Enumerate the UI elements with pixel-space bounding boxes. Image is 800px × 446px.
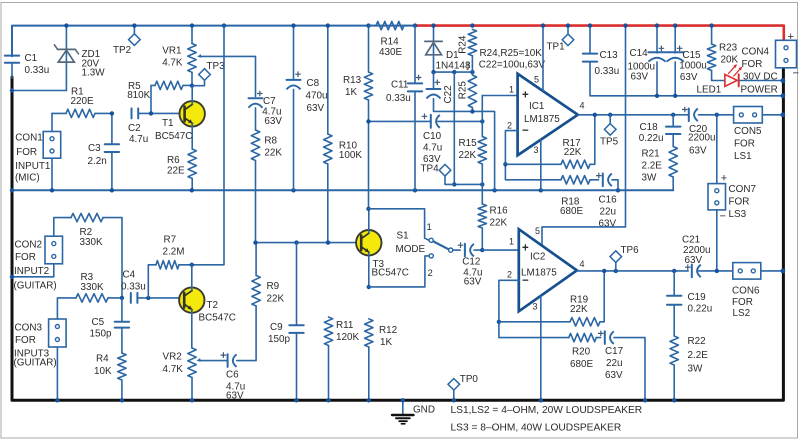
svg-text:CON2: CON2 bbox=[15, 240, 42, 251]
label R13 bbox=[343, 75, 362, 98]
test point TP3 bbox=[193, 69, 210, 86]
connector CON3 bbox=[49, 319, 67, 401]
junction gnd R22 bbox=[672, 398, 676, 402]
label R6 bbox=[167, 155, 185, 176]
junction R25 bottom bbox=[470, 109, 474, 113]
transistor T2 bbox=[179, 265, 204, 348]
svg-text:470u: 470u bbox=[306, 91, 328, 102]
VR2 wiper arrow bbox=[197, 358, 228, 362]
svg-text:2.2E: 2.2E bbox=[688, 350, 709, 361]
svg-text:22K: 22K bbox=[264, 147, 282, 158]
svg-text:2: 2 bbox=[507, 121, 512, 131]
label T1 bbox=[155, 118, 192, 142]
svg-text:−: − bbox=[793, 68, 799, 80]
resistor R14 bbox=[369, 21, 416, 29]
junction base line R10/R11 bbox=[326, 240, 330, 244]
svg-text:TP1: TP1 bbox=[547, 42, 566, 53]
junction frame at cap bus bbox=[781, 93, 786, 98]
resistor R12 bbox=[365, 319, 373, 401]
label C4 bbox=[121, 270, 146, 293]
label R1 bbox=[71, 86, 94, 107]
zener diode ZD1 bbox=[12, 26, 79, 91]
svg-text:C4: C4 bbox=[123, 270, 136, 281]
svg-text:C2: C2 bbox=[128, 123, 141, 134]
wire: IC2 pin2 bbox=[499, 280, 569, 337]
test point TP4 bbox=[439, 164, 454, 184]
wire: IC1 output bbox=[578, 114, 783, 116]
CON4 plus bbox=[788, 31, 794, 43]
svg-text:CON7: CON7 bbox=[729, 184, 756, 195]
label VR1 bbox=[162, 46, 183, 69]
ground frame (black bus) bbox=[12, 69, 783, 400]
svg-text:10K: 10K bbox=[94, 366, 112, 377]
test point TP0 bbox=[448, 379, 460, 401]
wire: pin1 column bbox=[481, 96, 483, 122]
junction IC2 fb node bbox=[497, 320, 501, 324]
svg-text:R25: R25 bbox=[458, 81, 469, 100]
label R24,R25 note bbox=[467, 48, 546, 71]
junction C15 gnd bbox=[673, 94, 677, 98]
label C9 bbox=[268, 322, 290, 345]
label R23 bbox=[719, 43, 738, 66]
wire: IC2 pin3 bbox=[540, 296, 542, 401]
capacitor C10 bbox=[369, 115, 483, 128]
potentiometer VR2 bbox=[188, 348, 196, 401]
resistor R20 bbox=[569, 333, 601, 341]
label C15 bbox=[679, 50, 706, 83]
junction C4/R7/T2 bbox=[146, 296, 150, 300]
capacitor C8 bbox=[287, 26, 301, 191]
svg-text:C7: C7 bbox=[263, 96, 276, 107]
connector CON2 bbox=[12, 236, 63, 277]
resistor R23 bbox=[707, 26, 725, 81]
svg-text:BC547C: BC547C bbox=[372, 268, 409, 279]
capacitor C11 bbox=[408, 26, 422, 191]
svg-text:0.33u: 0.33u bbox=[25, 65, 50, 76]
svg-text:1.3W: 1.3W bbox=[82, 67, 106, 78]
pin number 4 (IC1) bbox=[580, 101, 585, 111]
junction on frame (ZD1 return) bbox=[10, 88, 14, 92]
svg-text:1K: 1K bbox=[380, 337, 392, 348]
resistor R3 bbox=[57, 294, 122, 319]
op-amp IC1 bbox=[518, 74, 578, 156]
resistor R25 bbox=[468, 72, 476, 111]
junction T3 emitter bbox=[367, 285, 371, 289]
svg-text:22E: 22E bbox=[167, 165, 185, 176]
CON7 minus bbox=[720, 211, 726, 223]
svg-text:FOR: FOR bbox=[16, 147, 37, 158]
resistor R16 bbox=[478, 204, 486, 250]
junction R15 bottom bbox=[480, 182, 484, 186]
wire: V+ blue bus bbox=[12, 26, 415, 57]
junction T3-col/C10 bbox=[366, 119, 370, 123]
svg-text:C9: C9 bbox=[270, 322, 283, 333]
capacitor C18 bbox=[666, 115, 680, 147]
junction R24/R25 bbox=[470, 70, 474, 74]
svg-text:63V: 63V bbox=[680, 72, 698, 83]
junction V+ bus at T2-line bbox=[222, 23, 226, 27]
junction red bus at IC2 feed bbox=[623, 23, 627, 27]
capacitor C21 bbox=[692, 265, 701, 278]
svg-text:330K: 330K bbox=[81, 282, 104, 293]
C17 plus bbox=[598, 331, 604, 337]
svg-text:330K: 330K bbox=[80, 237, 103, 248]
label TP0 bbox=[460, 374, 479, 385]
label R16 bbox=[490, 206, 509, 229]
pin number 3 (IC2) bbox=[533, 302, 538, 312]
transistor T1 bbox=[180, 85, 205, 149]
svg-text:2.2M: 2.2M bbox=[163, 247, 185, 258]
label IC2 bbox=[521, 252, 557, 279]
svg-text:TP5: TP5 bbox=[600, 137, 619, 148]
resistor R4 bbox=[118, 353, 126, 401]
wire: S1 throw2 bbox=[369, 256, 429, 287]
svg-text:+: + bbox=[522, 243, 529, 255]
LED LED1 bbox=[725, 64, 742, 86]
junction gnd R12 bbox=[367, 398, 371, 402]
svg-text:R24: R24 bbox=[458, 35, 469, 54]
C15 plus bbox=[677, 46, 683, 52]
svg-text:0.33u: 0.33u bbox=[595, 66, 620, 77]
junction gnd C9 bbox=[294, 398, 298, 402]
svg-text:63V: 63V bbox=[685, 255, 703, 266]
IC2 plus sign bbox=[522, 243, 529, 255]
label S1 pos2 bbox=[428, 268, 433, 279]
svg-text:810K: 810K bbox=[127, 90, 150, 101]
resistor R22 bbox=[670, 336, 678, 401]
wire: wiper to C7 bbox=[255, 56, 257, 96]
connector CON7 bbox=[708, 184, 726, 210]
svg-text:2.2n: 2.2n bbox=[88, 156, 107, 167]
label C17 bbox=[605, 346, 623, 381]
C10 plus bbox=[422, 114, 428, 120]
wire: bias riser bbox=[453, 72, 455, 184]
junction C2/R5/T1 base bbox=[149, 111, 153, 115]
label R4 bbox=[94, 354, 112, 378]
junction V+ bus at C8 bbox=[291, 23, 295, 27]
junction out1/R17 bbox=[593, 113, 597, 117]
svg-text:22K: 22K bbox=[490, 218, 508, 229]
resistor R17 bbox=[561, 115, 595, 169]
capacitor C7 bbox=[249, 98, 263, 130]
svg-text:0.33u: 0.33u bbox=[121, 282, 146, 293]
wire: pole to C12 bbox=[453, 249, 460, 251]
junction gnd CON1 bbox=[50, 188, 54, 192]
svg-text:63V: 63V bbox=[307, 103, 325, 114]
svg-text:CON1: CON1 bbox=[15, 132, 43, 143]
junction C12/R16/pin1 bbox=[480, 248, 484, 252]
svg-text:2: 2 bbox=[507, 270, 512, 280]
label TP1 bbox=[547, 42, 566, 53]
junction gnd C16 bbox=[616, 188, 620, 192]
capacitor C16 bbox=[603, 174, 618, 191]
junction T3 collector bbox=[366, 207, 370, 211]
label R25 bbox=[458, 81, 469, 100]
label CON1 bbox=[15, 132, 51, 183]
label C19 bbox=[688, 292, 713, 315]
svg-text:FOR: FOR bbox=[15, 335, 36, 346]
label TP2 bbox=[113, 45, 131, 56]
label CON2 bbox=[14, 240, 57, 292]
junction D1/C22 bbox=[431, 70, 435, 74]
junction red bus at C13 bbox=[588, 23, 592, 27]
svg-text:R8: R8 bbox=[264, 136, 277, 147]
svg-text:+: + bbox=[788, 31, 794, 43]
junction out2/C19 bbox=[672, 269, 676, 273]
switch S1 blade bbox=[433, 241, 448, 249]
label C22 bbox=[443, 85, 454, 103]
svg-text:63V: 63V bbox=[226, 391, 244, 402]
label R19 bbox=[570, 294, 589, 315]
capacitor C15 bbox=[667, 26, 684, 96]
svg-text:4: 4 bbox=[580, 101, 585, 111]
svg-text:150p: 150p bbox=[268, 334, 290, 345]
label C5 bbox=[90, 317, 112, 340]
junction blue/red bus bbox=[413, 23, 417, 27]
svg-text:FOR: FOR bbox=[742, 59, 763, 70]
junction gnd VR2 bbox=[190, 398, 194, 402]
note LS3 bbox=[451, 423, 622, 434]
svg-text:R21: R21 bbox=[642, 149, 661, 160]
svg-text:100K: 100K bbox=[339, 150, 362, 161]
svg-text:TP0: TP0 bbox=[460, 374, 479, 385]
junction out2/CON7 bbox=[715, 269, 719, 273]
label POWER bbox=[741, 85, 778, 96]
svg-text:220E: 220E bbox=[71, 96, 94, 107]
C11 plus bbox=[416, 75, 422, 81]
svg-text:C22: C22 bbox=[443, 85, 454, 103]
svg-text:1: 1 bbox=[509, 85, 514, 95]
junction gnd R6 bbox=[190, 188, 194, 192]
svg-text:4.7u: 4.7u bbox=[423, 143, 442, 154]
svg-text:63V: 63V bbox=[264, 116, 282, 127]
svg-text:GND: GND bbox=[413, 405, 435, 416]
svg-text:C6: C6 bbox=[226, 370, 239, 381]
label C10 bbox=[423, 131, 442, 165]
svg-text:C22=100u,63V: C22=100u,63V bbox=[479, 60, 546, 71]
svg-text:R24,R25=10K: R24,R25=10K bbox=[480, 48, 543, 59]
connector CON1 bbox=[43, 113, 61, 190]
label CON4 bbox=[742, 47, 778, 83]
label TP3 bbox=[207, 61, 226, 72]
svg-text:IC1: IC1 bbox=[529, 101, 545, 112]
C22 plus bbox=[435, 80, 441, 86]
svg-text:CON6: CON6 bbox=[732, 285, 760, 296]
label R7 bbox=[163, 235, 185, 258]
svg-text:63V: 63V bbox=[599, 219, 617, 230]
svg-text:63V: 63V bbox=[605, 370, 623, 381]
label R20 bbox=[570, 347, 593, 371]
label D1 bbox=[436, 50, 471, 72]
svg-text:4.7K: 4.7K bbox=[162, 58, 183, 69]
junction gnd R4 bbox=[120, 398, 124, 402]
junction gnd R25-return bbox=[492, 188, 496, 192]
svg-text:LS1,LS2 = 4–OHM, 20W LOUDSPEAK: LS1,LS2 = 4–OHM, 20W LOUDSPEAKER bbox=[451, 405, 643, 416]
junction red bus at R24 bbox=[470, 23, 474, 27]
junction gnd CON3 bbox=[55, 398, 59, 402]
wire: ground bus bbox=[12, 189, 673, 191]
resistor R21 bbox=[669, 147, 677, 191]
junction frame at CON5 bbox=[781, 112, 786, 117]
svg-text:22K: 22K bbox=[267, 294, 285, 305]
label C12 bbox=[462, 257, 482, 288]
junction gnd frame bbox=[10, 188, 14, 192]
junction R1/C2/C3 bbox=[110, 111, 114, 115]
label IC1 bbox=[524, 101, 560, 125]
svg-text:3: 3 bbox=[533, 302, 538, 312]
junction red bus at R23 bbox=[709, 23, 713, 27]
svg-text:4.7u: 4.7u bbox=[129, 134, 148, 145]
svg-text:R23: R23 bbox=[719, 43, 738, 54]
test point TP2 bbox=[129, 26, 141, 46]
svg-text:FOR: FOR bbox=[15, 252, 36, 263]
label R18 bbox=[560, 197, 583, 217]
label R5 bbox=[127, 81, 150, 101]
junction out2/R19 bbox=[602, 269, 606, 273]
junction C14 gnd bbox=[655, 94, 659, 98]
svg-text:0.33u: 0.33u bbox=[386, 93, 411, 104]
junction V+ bus at R13 bbox=[366, 23, 370, 27]
svg-text:C19: C19 bbox=[688, 292, 707, 303]
junction gnd IC2 pin3 bbox=[539, 398, 543, 402]
diode D1 bbox=[425, 26, 442, 73]
IC1 minus sign bbox=[522, 125, 529, 137]
junction IC1 fb node bbox=[503, 162, 507, 166]
resistor R6 bbox=[188, 149, 196, 190]
svg-text:+: + bbox=[522, 90, 529, 102]
svg-text:BC547C: BC547C bbox=[199, 313, 236, 324]
svg-text:R11: R11 bbox=[336, 320, 354, 331]
pin number 1 (IC2) bbox=[509, 237, 514, 247]
resistor R5 bbox=[151, 81, 192, 113]
junction C10/R15/pin1 bbox=[480, 119, 484, 123]
connector CON5 bbox=[734, 107, 763, 124]
svg-text:30V DC: 30V DC bbox=[743, 72, 778, 83]
svg-text:2.2E: 2.2E bbox=[642, 161, 663, 172]
pin number 3 (IC1) bbox=[534, 145, 539, 155]
resistor R8 bbox=[251, 130, 259, 243]
svg-text:R4: R4 bbox=[96, 354, 109, 365]
wire: V+ red bus bbox=[415, 26, 784, 41]
capacitor C9 bbox=[289, 243, 303, 401]
svg-text:C5: C5 bbox=[92, 317, 105, 328]
label R2 bbox=[80, 227, 103, 248]
junction TP4 stem bbox=[452, 182, 456, 186]
svg-text:22u: 22u bbox=[600, 207, 616, 218]
label R17 bbox=[563, 138, 582, 158]
capacitor C22 bbox=[427, 72, 495, 190]
junction V+ bus at R10 bbox=[326, 23, 330, 27]
connector CON4 bbox=[776, 40, 797, 68]
C8 plus bbox=[295, 71, 301, 77]
svg-text:680E: 680E bbox=[560, 206, 583, 217]
junction gnd C17 bbox=[643, 398, 647, 402]
test point TP1 bbox=[562, 26, 574, 46]
svg-text:C17: C17 bbox=[605, 346, 623, 357]
svg-text:150p: 150p bbox=[90, 329, 112, 340]
svg-text:INPUT1: INPUT1 bbox=[15, 161, 51, 172]
label TP4 bbox=[421, 164, 440, 175]
svg-text:VR2: VR2 bbox=[163, 352, 182, 363]
wire: IC1 pin2 bbox=[505, 131, 561, 180]
label C21 bbox=[682, 235, 710, 267]
svg-text:TP6: TP6 bbox=[621, 245, 640, 256]
connector CON6 bbox=[733, 263, 761, 280]
label C1 bbox=[25, 53, 50, 76]
svg-text:63V: 63V bbox=[631, 71, 649, 82]
svg-text:C16: C16 bbox=[599, 195, 618, 206]
label ZD1 bbox=[82, 49, 106, 78]
svg-text:C13: C13 bbox=[600, 50, 619, 61]
label R12 bbox=[379, 325, 397, 348]
svg-text:LS3 = 8–OHM, 40W LOUDSPEAKER: LS3 = 8–OHM, 40W LOUDSPEAKER bbox=[451, 423, 622, 434]
wire: CON7 to out2 bbox=[716, 210, 718, 271]
junction V+ bus at VR1 bbox=[190, 23, 194, 27]
wire: T3 base line bbox=[256, 242, 361, 244]
wire: IC1 pin3 bbox=[540, 140, 542, 191]
capacitor C1 bbox=[5, 56, 19, 78]
capacitor C19 bbox=[667, 271, 681, 336]
svg-text:CON3: CON3 bbox=[15, 323, 43, 334]
label T2 bbox=[199, 300, 236, 324]
label S1 bbox=[396, 231, 426, 256]
svg-text:CON4: CON4 bbox=[742, 47, 770, 58]
label R10 bbox=[339, 141, 362, 162]
svg-text:C1: C1 bbox=[25, 53, 38, 64]
svg-text:R15: R15 bbox=[459, 138, 478, 149]
resistor R1 bbox=[52, 109, 112, 117]
pin number 4 (IC2) bbox=[580, 259, 585, 269]
transistor T3 bbox=[356, 209, 381, 287]
svg-text:20K: 20K bbox=[721, 55, 739, 66]
junction out1/CON7 bbox=[715, 113, 719, 117]
svg-text:63V: 63V bbox=[464, 277, 482, 288]
junction red bus at C14 bbox=[655, 23, 659, 27]
capacitor C2 bbox=[132, 108, 185, 118]
svg-text:2200u: 2200u bbox=[688, 132, 715, 143]
resistor R13 bbox=[364, 26, 372, 209]
label C16 bbox=[599, 195, 618, 230]
pin number 5 (IC2) bbox=[535, 226, 540, 236]
resistor R9 bbox=[252, 243, 260, 306]
capacitor C6 bbox=[228, 306, 257, 367]
wire: IC2 pin1 bbox=[482, 249, 519, 251]
svg-text:BC547C: BC547C bbox=[155, 131, 192, 142]
wire: LED to frame bbox=[740, 80, 783, 82]
svg-text:MODE: MODE bbox=[396, 244, 426, 255]
svg-text:C11: C11 bbox=[391, 80, 409, 91]
svg-text:POWER: POWER bbox=[741, 85, 778, 96]
label C2 bbox=[128, 123, 148, 145]
svg-text:R7: R7 bbox=[164, 235, 177, 246]
svg-text:22K: 22K bbox=[459, 150, 477, 161]
wire: TP4 line bbox=[454, 183, 482, 185]
wire: R16 column bbox=[481, 184, 483, 204]
wire: bias node bbox=[434, 71, 473, 73]
label R8 bbox=[264, 136, 282, 159]
junction gnd IC1 pin3 bbox=[539, 188, 543, 192]
resistor R2 bbox=[54, 213, 122, 298]
capacitor C4 bbox=[131, 293, 184, 303]
svg-text:63V: 63V bbox=[423, 154, 441, 165]
svg-text:(MIC): (MIC) bbox=[15, 173, 40, 184]
C20 plus bbox=[682, 107, 688, 113]
VR1 wiper arrow bbox=[197, 54, 255, 58]
label R9 bbox=[267, 281, 285, 305]
svg-text:TP3: TP3 bbox=[207, 61, 226, 72]
label C11 bbox=[386, 80, 411, 104]
svg-text:INPUT2: INPUT2 bbox=[14, 266, 49, 277]
